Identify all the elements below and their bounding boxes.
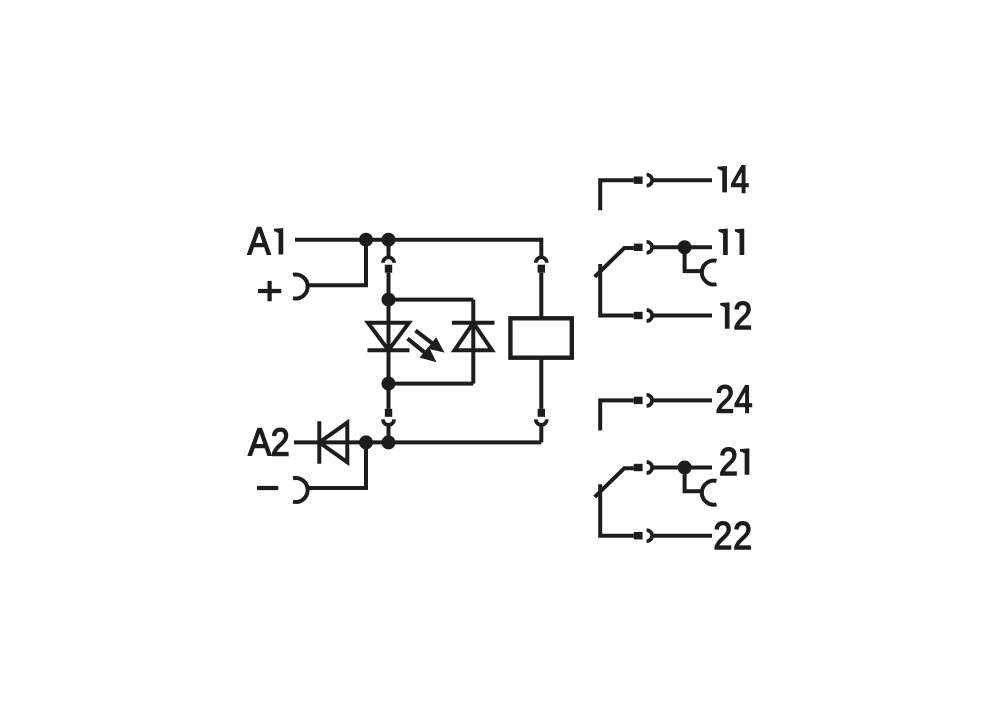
disconnect socket 22 — [647, 530, 653, 541]
wire parallel-diode branch top — [389, 298, 474, 302]
junction dot A1 rail left — [359, 233, 373, 247]
wire LED branch vertical — [387, 273, 391, 384]
terminal label 21 — [719, 441, 749, 484]
wire A2 rail — [294, 440, 541, 444]
wire coil branch bottom corner — [539, 426, 543, 442]
cage clamp terminal - — [293, 478, 308, 502]
disconnect pin, coil branch top — [538, 265, 545, 273]
protection diode D2 cathode bar — [452, 321, 495, 325]
disconnect pin 11 — [634, 244, 643, 251]
relay coil K1 — [510, 318, 571, 357]
changeover lever (11 common) — [595, 248, 634, 277]
diode D3 (triangle) — [319, 423, 347, 463]
disconnect pin, LED branch top — [385, 265, 392, 273]
svg-text:4: 4 — [734, 379, 752, 422]
junction dot A2 rail left — [359, 435, 373, 449]
junction dot A2 rail right — [382, 435, 396, 449]
wire to terminal 21 — [652, 466, 712, 470]
terminal label 11 — [718, 229, 744, 255]
terminal label 24 — [715, 379, 752, 422]
wire 21 dot to clamp — [685, 468, 703, 492]
wire parallel-diode branch bottom — [389, 382, 474, 386]
disconnect socket 11 — [647, 242, 653, 253]
junction dot A1 rail right (LED branch) — [382, 233, 396, 247]
wire pin to coil — [539, 273, 543, 317]
disconnect socket, LED branch bottom — [383, 419, 394, 425]
wire A1 rail — [295, 238, 541, 242]
LED D1 (triangle) — [368, 323, 409, 350]
wire 11 dot to clamp — [685, 247, 703, 271]
svg-text:2: 2 — [271, 421, 290, 464]
wire from - clamp up to A2 rail — [307, 442, 367, 488]
junction dot 11 — [678, 240, 692, 254]
NO contact pole stub (14 row) — [600, 180, 634, 210]
disconnect pin 12 — [634, 312, 643, 319]
disconnect socket, LED branch top — [383, 257, 394, 263]
minus sign label — [257, 486, 278, 490]
svg-text:2: 2 — [715, 379, 734, 422]
NO contact pole stub (24 row) — [600, 400, 634, 430]
terminal label A2 — [248, 421, 290, 464]
disconnect socket, coil branch top — [536, 257, 547, 263]
svg-text:2: 2 — [719, 441, 738, 484]
cage clamp terminal 11 — [702, 261, 717, 285]
svg-text:2: 2 — [713, 515, 732, 558]
disconnect socket 24 — [647, 395, 653, 406]
wire to terminal 22 — [652, 534, 712, 538]
terminal label A1 — [248, 221, 284, 264]
changeover lever (21 common) — [595, 468, 634, 497]
common pole wire (21/22) — [600, 484, 634, 536]
wire to terminal 24 — [652, 398, 712, 402]
protection diode D2 (triangle) — [455, 323, 493, 350]
disconnect pin 22 — [634, 532, 643, 539]
disconnect pin 24 — [634, 397, 643, 404]
LED D1 cathode bar — [368, 348, 410, 352]
wire stub socket to A2 dot — [387, 426, 391, 442]
disconnect socket, coil branch bottom — [536, 419, 547, 425]
common pole wire (11/12) — [600, 264, 634, 316]
wire to terminal 14 — [652, 178, 712, 182]
terminal label 22 — [713, 515, 752, 558]
cage clamp terminal + — [293, 275, 308, 299]
svg-text:2: 2 — [733, 295, 752, 338]
terminal label 12 — [720, 295, 752, 338]
wire to terminal 11 — [652, 245, 712, 249]
disconnect socket 12 — [647, 310, 653, 321]
svg-text:2: 2 — [733, 515, 752, 558]
disconnect socket 14 — [647, 175, 653, 186]
wire coil bottom — [539, 360, 543, 409]
wire to terminal 12 — [652, 314, 712, 318]
disconnect pin 21 — [634, 464, 643, 471]
disconnect pin, coil branch bottom — [538, 409, 545, 417]
wire coil branch top corner — [539, 238, 543, 257]
plus sign label — [258, 281, 281, 301]
terminal label 14 — [718, 158, 749, 201]
svg-text:A: A — [248, 221, 271, 264]
junction dot LED branch top — [382, 293, 396, 307]
disconnect pin, LED branch bottom — [385, 409, 392, 417]
junction dot LED branch bottom — [382, 377, 396, 391]
svg-text:A: A — [248, 421, 271, 464]
cage clamp terminal 21 — [702, 481, 717, 505]
wire parallel-diode vertical — [471, 300, 475, 384]
svg-text:4: 4 — [731, 158, 749, 201]
diode D3 cathode bar — [317, 421, 321, 464]
LED light emission arrows — [408, 331, 445, 363]
wire stub dot to socket — [387, 240, 391, 257]
wire LED branch to A2 rail — [387, 384, 391, 409]
junction dot 21 — [678, 461, 692, 475]
wire from + clamp up to A1 rail — [307, 240, 367, 286]
disconnect pin 14 — [634, 177, 643, 184]
disconnect socket 21 — [647, 462, 653, 473]
